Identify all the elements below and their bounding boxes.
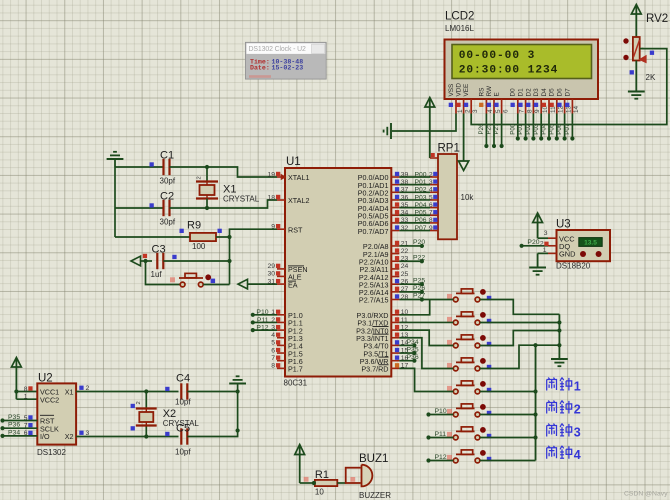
wire P10 to button6 [429,414,454,416]
svg-text:2K: 2K [646,73,656,82]
terminal arrow (EA) [238,279,248,289]
svg-text:100: 100 [192,242,206,251]
wire C5 to ground rail [187,384,237,437]
wire C1 to XTAL1 [170,167,278,177]
wire P2.7 to button1 (P27) [399,299,453,301]
pin-state square C5 [165,432,169,436]
svg-text:P11: P11 [257,317,269,324]
LCD LM016L body [445,40,599,100]
wire R9 left [115,236,190,238]
power terminal (RP1) [429,98,431,159]
svg-text:DS1302: DS1302 [37,448,66,457]
wire button4 to bus [480,345,560,368]
svg-text:P26: P26 [478,123,485,135]
svg-text:C5: C5 [176,423,190,435]
svg-text:4: 4 [271,332,275,339]
svg-text:2: 2 [86,385,90,392]
wire P10 (P1.0) [253,314,277,316]
svg-text:P3.7/RD: P3.7/RD [361,365,388,374]
wire P3.6 (P36) [399,360,414,362]
svg-text:D4: D4 [541,88,548,97]
wire P2.2 (P22) [399,260,422,262]
svg-text:DS18B20: DS18B20 [556,262,591,271]
wire P3.4 (P34) [399,344,414,346]
RV2 adjust buttons [623,38,628,43]
wire P35 (U2) [3,420,38,422]
svg-text:19: 19 [267,171,275,178]
svg-text:P36: P36 [8,422,20,429]
svg-text:C3: C3 [152,244,166,256]
svg-text:80C31: 80C31 [284,379,308,388]
svg-text:C1: C1 [160,150,174,162]
svg-text:P04: P04 [414,202,426,209]
svg-text:P22: P22 [413,254,425,261]
svg-text:X1: X1 [65,388,74,397]
wire rail C1-C2-R9 vertical [114,167,116,237]
wire P12 (P1.2) [253,329,277,331]
net label alarm 闹钟4 [547,446,557,459]
svg-text:10k: 10k [461,193,475,202]
svg-text:P25: P25 [486,123,493,135]
svg-text:RST: RST [288,225,303,234]
ground arrow terminal (LCD VDD) [463,114,465,162]
svg-text:D0: D0 [510,88,517,97]
push button SW7 [447,427,491,440]
terminal arrow (C3) [131,256,141,266]
pin-state square C4 [165,387,169,391]
svg-text:D2: D2 [525,88,532,97]
svg-text:P10: P10 [256,309,268,316]
op-amp U1 body (80C31) [285,168,391,377]
svg-text:P00: P00 [509,123,516,135]
svg-text:30pf: 30pf [160,177,176,186]
svg-text:3: 3 [574,426,581,440]
svg-text:29: 29 [267,263,275,270]
wire P3.7 to button5 [399,368,453,391]
RP1 pin stubs/numbers [430,176,438,178]
svg-text:1uf: 1uf [151,270,163,279]
svg-text:9: 9 [534,109,541,113]
reset button [179,277,203,279]
svg-text:P07: P07 [564,123,571,135]
push button SW1 [447,289,491,302]
wire P2.0 (P20) [399,245,422,247]
node X1 bottom [205,206,209,210]
wire P2.5 (P25) [399,283,422,285]
svg-text:14: 14 [573,105,580,113]
temperature sensor U3 body (DS18B20) [557,230,611,261]
svg-text:1: 1 [543,247,547,254]
svg-text:15-02-23: 15-02-23 [272,65,304,72]
svg-text:4: 4 [574,448,581,462]
U1 left pin stubs/numbers/names [277,176,285,178]
wires P00-P07 (U1 to RP1) [399,176,430,178]
svg-text:P25: P25 [413,277,425,284]
svg-text:P04: P04 [541,123,548,135]
buzzer BUZ1 [346,468,362,483]
svg-text:P1.7: P1.7 [288,365,303,374]
capacitor C1 [162,159,164,175]
wire U2 X2 to C5 [76,436,178,438]
svg-text:C4: C4 [176,372,190,384]
svg-text:P00: P00 [414,171,426,178]
svg-text:D7: D7 [564,88,571,97]
svg-text:P02: P02 [414,187,426,194]
node X2 top [144,389,148,393]
wire U3 GND [538,252,548,254]
svg-text:I/O: I/O [40,432,50,441]
wire RV2 bottom to ground [635,61,637,92]
potentiometer RV2 body [633,37,640,61]
node C3/RST junction [227,259,231,263]
push button SW5 [447,381,491,394]
push button SW6 [447,404,491,417]
svg-text:U1: U1 [286,156,301,168]
wire P3.5 (P35) [399,352,414,354]
wire P11 to button7 [429,437,454,439]
svg-text:P35: P35 [407,347,419,354]
push button SW3 [447,335,491,348]
DS1302 clock popup window [245,42,326,79]
svg-text:8: 8 [24,386,28,393]
svg-text:25: 25 [401,271,409,278]
svg-text:6: 6 [502,109,509,113]
U1 right pin stubs/numbers/names [391,176,399,178]
svg-text:1: 1 [24,394,28,401]
wires RS/RW/E (P26 P25 P27) [485,114,487,147]
wire button7 to bus [480,437,536,439]
node X2 bottom [144,434,148,438]
svg-text:Date:: Date: [250,65,270,72]
wires D0-D7 (P00-P07) [517,114,519,139]
wire P3.2 to button3 [399,330,453,345]
svg-text:P03: P03 [533,123,540,135]
svg-text:X2: X2 [65,432,74,441]
svg-text:BUZ1: BUZ1 [359,453,388,465]
svg-text:13.5: 13.5 [584,240,597,247]
svg-text:P02: P02 [525,123,532,135]
U3 adjust buttons [580,251,586,257]
svg-text:P36: P36 [407,354,419,361]
ground (RV2) [628,91,645,93]
power terminal (R1) [299,445,301,484]
svg-text:22: 22 [401,248,409,255]
svg-text:P12: P12 [256,324,268,331]
node R9/RST junction [227,235,231,239]
node C4/C5 rail [236,428,240,432]
ground (crystal rail) [114,159,116,167]
wire power to RP1 pin1 [430,157,438,159]
svg-text:D1: D1 [518,88,525,97]
crystal X1 [196,180,218,182]
svg-text:P10: P10 [435,408,447,415]
wire P34 (U2) [3,435,38,437]
pin-state squares C3 [143,254,147,258]
wire button6 to bus [480,414,536,416]
resistor R1 [315,480,337,486]
svg-text:GND: GND [559,250,575,259]
wire X1 bottom stub [206,199,208,209]
svg-text:VSS: VSS [448,84,455,97]
svg-text:P27: P27 [413,293,425,300]
svg-text:RP1: RP1 [438,143,460,155]
U3 pin stubs/names [548,237,557,239]
svg-text:18: 18 [267,194,275,201]
LCD screen [452,45,592,79]
svg-text:3: 3 [544,230,548,237]
svg-text:P26: P26 [413,285,425,292]
wire U3 DQ (P20) [522,245,548,247]
svg-text:R9: R9 [187,220,201,232]
svg-text:00-00-00 3: 00-00-00 3 [459,50,536,62]
svg-text:10pf: 10pf [175,398,191,407]
svg-text:P05: P05 [414,210,426,217]
svg-text:VDD: VDD [456,83,463,97]
power terminal (RV2) [635,5,637,38]
push button SW4 [447,358,491,371]
svg-text:31: 31 [267,278,275,285]
pin-state squares X2 [131,404,135,408]
wire C4 to ground rail [187,391,237,393]
LCD pin stubs/numbers/state squares [455,99,457,114]
wire U2 VCC1 [16,391,37,393]
svg-text:R1: R1 [315,469,329,481]
wire R9 to RST [216,229,277,237]
wire C3 to reset button [146,261,181,285]
wire R1 to buzzer [337,482,345,484]
svg-text:P27: P27 [493,123,500,135]
svg-text:VCC2: VCC2 [40,395,59,404]
node C3 left [143,259,147,263]
wire P3.1 to button2 [399,321,453,323]
ground (buttons) [551,358,568,360]
svg-text:P34: P34 [8,429,20,436]
svg-text:P0.7/AD7: P0.7/AD7 [358,227,389,236]
svg-text:D6: D6 [557,88,564,97]
svg-text:VEE: VEE [463,84,470,97]
wire U2 X1 to C4 [76,391,178,393]
bus B vertical [535,345,537,460]
wire RST rail down [229,237,231,285]
svg-text:30: 30 [267,271,275,278]
svg-text:P34: P34 [407,339,419,346]
svg-text:XTAL1: XTAL1 [288,173,309,182]
svg-text:LM016L: LM016L [445,24,474,33]
svg-text:24: 24 [401,263,409,270]
pin-state square C1 [150,162,154,166]
svg-text:P06: P06 [414,217,426,224]
svg-text:C2: C2 [160,191,174,203]
net label alarm 闹钟3 [547,424,557,437]
wire C3 right [163,260,229,262]
wire P3.0 to button1 [399,300,429,315]
svg-text:10pf: 10pf [175,448,191,457]
svg-text:P20: P20 [527,239,539,246]
wire U2 VCC2 [16,398,37,400]
svg-text:LCD2: LCD2 [445,11,474,23]
wire button1 to bus [480,300,560,315]
ground (LCD VSS) [390,123,392,139]
clock chip U2 body (DS1302) [37,383,76,444]
svg-text:CRYSTAL: CRYSTAL [223,195,260,204]
power terminal (U2) [15,358,17,400]
svg-text:P06: P06 [556,123,563,135]
svg-text:P35: P35 [8,414,20,421]
capacitor C3 [156,253,158,269]
svg-text:E: E [494,92,501,96]
svg-text:3: 3 [472,109,479,113]
node R1 left [312,481,316,485]
crystal X2 [145,392,147,409]
wire VEE to RV2 wiper [471,49,667,125]
svg-text:P03: P03 [414,194,426,201]
wire P2.6 (P26) [399,291,422,293]
svg-text:RS: RS [478,88,485,97]
wire P11 (P1.1) [253,321,277,323]
svg-text:RW: RW [486,85,493,96]
resistor R9 [190,233,216,241]
svg-text:8: 8 [526,109,533,113]
wire VSS to ground [392,114,456,132]
svg-text:RV2: RV2 [646,13,668,25]
capacitor C4 [180,383,182,399]
svg-text:7: 7 [271,355,275,362]
wire button2 to bus [480,322,560,324]
pin-state square C2 [150,203,154,207]
wire P12 to button8 [429,460,454,462]
svg-text:3: 3 [86,430,90,437]
ground (C4/C5) [229,383,246,385]
net label alarm 闹钟2 [547,401,557,414]
wire U3 VCC [538,237,548,239]
svg-text:10: 10 [315,488,324,497]
svg-text:XTAL2: XTAL2 [288,196,309,205]
wire C2 to XTAL2 [170,200,278,208]
svg-text:P12: P12 [435,454,447,461]
ground (U3) [529,267,546,269]
push button SW8 [447,450,491,463]
svg-text:P05: P05 [548,123,555,135]
svg-text:8: 8 [271,363,275,370]
svg-text:5: 5 [271,340,275,347]
wire reset button right [203,284,229,286]
capacitor C5 [180,428,182,444]
wire P3.3 to button4 [399,338,453,369]
svg-text:P11: P11 [435,431,447,438]
svg-text:1: 1 [574,380,581,394]
wire P36 (U2) [3,427,38,429]
svg-text:P20: P20 [413,239,425,246]
ground bus A [558,314,560,358]
wire button8 to bus [480,460,536,462]
svg-text:6: 6 [271,347,275,354]
wire power to R1 [300,482,315,484]
wire X1 top stub [206,167,208,182]
svg-text:9: 9 [271,224,275,231]
pin-state squares R9 [180,229,184,233]
U3 temperature display [579,238,602,247]
svg-text:EA: EA [288,280,298,289]
wire button5 to bus [480,391,536,393]
svg-text:2: 2 [574,403,581,417]
svg-text:30pf: 30pf [160,218,176,227]
wire C1 left [115,166,164,168]
svg-text:P2.7/A15: P2.7/A15 [359,296,389,305]
svg-text:DS1302 Clock - U2: DS1302 Clock - U2 [249,46,307,53]
power terminal (U3) [537,213,539,238]
wire EA [248,283,278,285]
wire button3 to bus [480,331,560,346]
svg-text:7: 7 [519,109,526,113]
pin-state squares RV2 [650,51,654,55]
pin-state square R1 [304,477,309,482]
svg-text:U3: U3 [556,219,571,231]
push button SW2 [447,312,491,325]
svg-text:2: 2 [197,176,203,179]
svg-text:P07: P07 [414,225,426,232]
svg-text:P01: P01 [517,123,524,135]
svg-text:20:30:00 1234: 20:30:00 1234 [459,65,559,77]
svg-text:BUZZER: BUZZER [359,491,391,500]
resistor pack RP1 body [438,154,457,239]
node X1 top [205,165,209,169]
svg-text:2: 2 [136,401,142,404]
wire C2 left [115,207,164,209]
net label alarm 闹钟1 [547,378,557,391]
svg-text:D3: D3 [533,88,540,97]
svg-text:CSDN @Navy D: CSDN @Navy D [624,491,670,498]
svg-text:P01: P01 [414,179,426,186]
capacitor C2 [162,200,164,216]
svg-text:D5: D5 [549,88,556,97]
